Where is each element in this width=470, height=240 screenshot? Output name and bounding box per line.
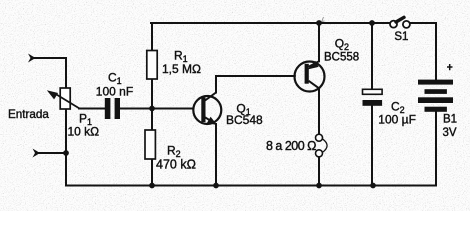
svg-text:8 a 200 Ω: 8 a 200 Ω	[266, 139, 316, 153]
wire wiper to C1	[79, 108, 105, 110]
wire bottom rail	[66, 185, 436, 187]
wire top rail right of S1	[410, 22, 436, 24]
wire C2 top	[371, 23, 373, 89]
transistor Q2	[295, 61, 325, 92]
svg-text:BC558: BC558	[324, 51, 359, 63]
wire node to Q1 base	[152, 108, 193, 110]
wire C2 bottom	[371, 106, 373, 186]
wire earphone bottom	[318, 157, 320, 186]
input terminal bottom	[33, 149, 41, 158]
wire top rail	[151, 22, 390, 24]
svg-text:100 nF: 100 nF	[96, 84, 133, 98]
wire Q2 collector vertical	[318, 89, 320, 134]
wire R1 top	[151, 23, 153, 51]
wire C1 to node	[120, 108, 152, 110]
wire P1 bottom vertical	[65, 109, 67, 186]
wire R2 top	[151, 109, 153, 131]
svg-text:1,5 MΩ: 1,5 MΩ	[162, 62, 201, 76]
wire R2 bottom	[151, 159, 153, 186]
svg-text:100 µF: 100 µF	[378, 112, 416, 126]
resistor R1	[147, 51, 157, 80]
svg-text:Entrada: Entrada	[8, 108, 49, 121]
node R2 bottom junction	[149, 183, 155, 189]
wire right vertical to battery	[435, 23, 437, 80]
node C2 bottom junction	[370, 183, 376, 189]
svg-text:S1: S1	[394, 31, 408, 43]
node Q1 emitter bottom junction	[213, 183, 219, 189]
wire Q1 collector vertical	[215, 76, 217, 93]
wire battery to bottom rail	[435, 111, 437, 186]
svg-text:B1: B1	[443, 113, 457, 125]
node earphone bottom junction	[316, 183, 322, 189]
capacitor C2	[363, 89, 383, 106]
wire Q2 emitter vertical	[318, 23, 320, 61]
wire input top	[34, 58, 66, 88]
switch S1	[390, 17, 410, 28]
battery plus sign	[447, 64, 453, 70]
svg-text:470 kΩ: 470 kΩ	[156, 157, 196, 171]
node divider junction	[149, 106, 155, 112]
battery B1	[418, 80, 453, 112]
input terminal top	[28, 54, 36, 63]
wire Q1 emitter vertical	[215, 124, 217, 186]
potentiometer P1	[47, 88, 80, 109]
wire R1 bottom	[151, 79, 153, 109]
node C2 top junction	[369, 20, 375, 26]
node input bottom junction	[63, 150, 69, 156]
svg-text:BC548: BC548	[226, 113, 263, 127]
capacitor C1	[105, 98, 120, 119]
svg-text:3V: 3V	[443, 127, 457, 139]
transistor Q1	[193, 93, 221, 126]
resistor R2	[145, 130, 155, 159]
svg-text:10 kΩ: 10 kΩ	[68, 125, 100, 139]
earphone 8 a 200 ohm	[316, 134, 328, 157]
wire input bottom	[38, 152, 66, 154]
wire Q1 collector to Q2 base	[216, 75, 295, 77]
node Q2 emitter rail junction	[316, 20, 322, 26]
